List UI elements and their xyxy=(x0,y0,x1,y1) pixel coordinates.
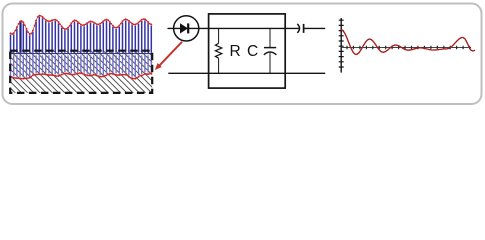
dashed highlight box over rejected half xyxy=(10,51,152,93)
node: output demodulated waveform xyxy=(341,30,475,55)
label R C xyxy=(230,43,260,60)
wire: input top wire through diode xyxy=(168,27,300,29)
hatched region of rejected half (clipped) xyxy=(0,50,198,96)
node: baseline of AM signal xyxy=(11,53,153,55)
node: negative half carrier inside dashed box xyxy=(11,55,152,77)
outer rounded panel border xyxy=(3,4,482,105)
red arrow from diode to rejected half xyxy=(155,42,182,70)
node: tall carrier line xyxy=(20,20,22,52)
output plot horizontal axis xyxy=(341,46,471,50)
wire: output wire after coupling capacitor xyxy=(304,27,325,29)
wire: bottom return wire xyxy=(168,72,325,74)
diode D1 (detector diode in circle) xyxy=(174,16,199,41)
capacitor C (shunt, inside box) xyxy=(264,28,277,73)
RC network box xyxy=(209,14,286,88)
node: input AM signal carrier (top half) xyxy=(11,17,152,53)
output plot vertical axis xyxy=(339,18,344,73)
svg-text:R C: R C xyxy=(230,43,260,60)
resistor R xyxy=(215,28,221,73)
capacitor C2 (series coupling) xyxy=(297,24,303,33)
node: AM envelope (red, top) xyxy=(11,16,152,34)
node: negative envelope (red, bottom) xyxy=(11,73,152,79)
